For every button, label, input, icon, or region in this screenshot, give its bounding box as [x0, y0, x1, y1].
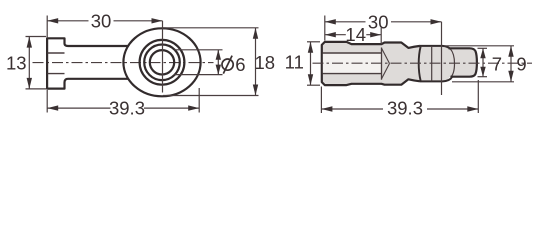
centerline horizontal left view [33, 62, 214, 64]
dim 30 left: arrow left [47, 18, 58, 23]
svg-text:9: 9 [516, 53, 526, 74]
svg-text:7: 7 [492, 53, 502, 74]
ball vertical centerline [441, 22, 443, 95]
dim 39.3 right: arrow right [467, 106, 478, 111]
dim phi6: label [222, 54, 246, 75]
ball circle [144, 45, 180, 81]
body and collar outline [322, 42, 420, 85]
dim 39.3 left: arrow right [188, 105, 199, 110]
dim 13: extension top [26, 36, 47, 38]
svg-text:14: 14 [345, 24, 366, 45]
hex flat line upper in flange [48, 52, 65, 54]
dim 39.3 left: arrow left [47, 105, 58, 110]
dim 11: arrow down [308, 74, 313, 85]
dim phi6: extension bottom [174, 74, 222, 76]
dim 39.3 left: dimension line [47, 107, 199, 109]
dim 9: dimension line [510, 46, 512, 82]
dim 14: arrow left [325, 32, 336, 37]
svg-text:18: 18 [255, 52, 276, 73]
dim 14: dimension line [325, 34, 381, 36]
ball barrel top and bottom outline [420, 46, 452, 82]
part silhouette gray fill [322, 42, 477, 85]
svg-text:39.3: 39.3 [109, 98, 145, 119]
dim 39.3 left: extension right [198, 88, 200, 113]
dim 18: arrow down [253, 85, 258, 96]
dim 13: dimension line [28, 37, 30, 89]
dim 9: extension bottom [452, 81, 514, 83]
dim 39.3 right: arrow left [321, 106, 332, 111]
dim phi6: extension top [174, 49, 222, 51]
dim 7: arrow up [480, 48, 485, 58]
svg-text:13: 13 [6, 53, 27, 74]
dim phi6: arrow down [216, 65, 221, 75]
dim 30 left: arrow right [152, 18, 163, 23]
svg-text:30: 30 [368, 11, 389, 32]
ball left silhouette arc [419, 47, 421, 81]
dim 14: arrow right [370, 32, 381, 37]
stub cylinder outline [449, 48, 477, 76]
cone lower diagonal [382, 64, 390, 79]
ball flat edge line [431, 46, 433, 81]
svg-text:39.3: 39.3 [387, 98, 423, 119]
dim 13: arrow up [27, 37, 32, 48]
dim 18: arrow up [253, 28, 258, 39]
cone base line [381, 48, 383, 80]
svg-text:30: 30 [91, 11, 112, 32]
dim phi6: arrow up [216, 50, 221, 60]
dim 11: extension bottom [307, 84, 320, 86]
dim 7: dimension line [482, 48, 484, 76]
dim 14: extension right above [380, 28, 382, 44]
white hex band [323, 54, 381, 73]
dim 13: extension bottom [26, 88, 47, 90]
dim 13: arrow down [27, 78, 32, 89]
dim 9: arrow up [508, 46, 513, 57]
dim 7: arrow down [480, 67, 485, 77]
eye vertical center mark [162, 21, 164, 93]
dim 9: arrow down [508, 71, 513, 82]
dim 18: extension bottom [163, 95, 259, 97]
dim 11: extension top [307, 41, 320, 43]
dim 18: dimension line [255, 28, 257, 96]
dim 11: dimension line [310, 42, 312, 85]
dim 9: extension top [444, 45, 514, 47]
hex flat line lower in flange [48, 73, 65, 75]
dim 18: extension top [163, 27, 259, 29]
dim 30 right: arrow left [325, 19, 336, 24]
hole circle phi6 [150, 50, 174, 74]
hex line bottom right view [323, 73, 382, 75]
dim 7: extension top [478, 47, 488, 49]
eye outer ellipse [123, 28, 200, 96]
dim 30 right: arrow right [431, 19, 442, 24]
flange and shaft body outline [47, 38, 129, 88]
dim 39.3 right: dimension line [321, 108, 478, 110]
svg-text:6: 6 [235, 54, 245, 75]
ball right arc inside stub [450, 49, 454, 77]
dim 30 right: dimension line [325, 21, 442, 23]
dim phi6: dimension line [217, 50, 219, 75]
svg-text:11: 11 [285, 52, 304, 73]
dim 30 right: extension line left [324, 16, 326, 41]
centerline horizontal right view [313, 62, 533, 64]
dim 11: arrow up [308, 42, 313, 53]
dim 39.3 right: extension left below [320, 87, 322, 114]
dim 30 left: dimension line [47, 20, 162, 22]
dim 39.3 right: extension right below [477, 80, 479, 113]
dim 30 left: extension line left [46, 16, 48, 39]
hex line top right view [323, 52, 382, 54]
cone upper diagonal [382, 49, 390, 64]
dim 39.3 left: extension left below [46, 90, 48, 113]
collar circle [140, 40, 185, 85]
dim 7: extension bottom [478, 76, 488, 78]
